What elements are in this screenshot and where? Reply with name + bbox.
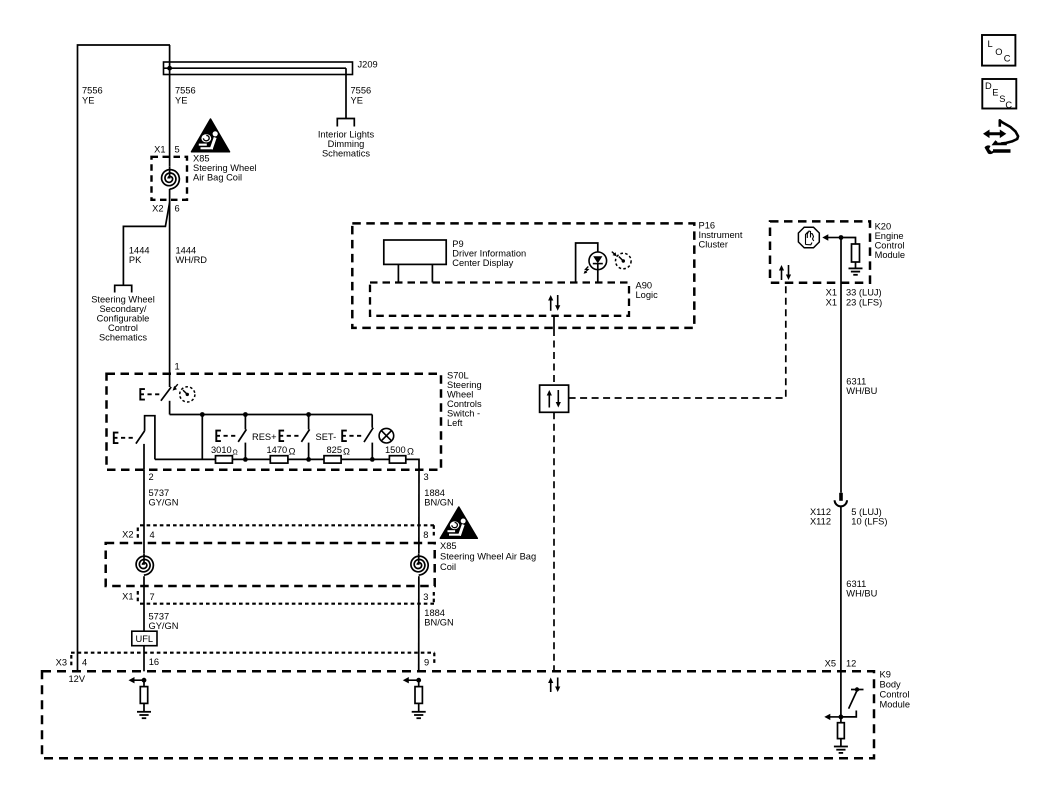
- svg-text:Module: Module: [875, 250, 906, 260]
- svg-text:X1: X1: [122, 592, 133, 602]
- svg-text:4: 4: [82, 658, 87, 668]
- svg-text:Control: Control: [875, 241, 905, 251]
- svg-text:L: L: [988, 39, 993, 49]
- svg-text:X85: X85: [440, 541, 457, 551]
- off-page connector Steering Wheel Secondary: [115, 285, 132, 292]
- svg-text:5737: 5737: [149, 488, 170, 498]
- svg-text:5 (LUJ): 5 (LUJ): [851, 507, 881, 517]
- K9 Body Control Module box: [42, 671, 874, 758]
- svg-text:X2: X2: [122, 530, 133, 540]
- switch S2 (volume/left bottom): [136, 431, 145, 444]
- svg-text:3010: 3010: [211, 445, 232, 455]
- svg-text:7556: 7556: [175, 86, 196, 96]
- junction dot BCM right: [839, 715, 844, 720]
- svg-text:GY/GN: GY/GN: [149, 498, 179, 508]
- svg-text:4: 4: [150, 530, 155, 540]
- svg-text:BN/GN: BN/GN: [424, 618, 453, 628]
- svg-text:X85: X85: [193, 154, 210, 164]
- svg-text:Body: Body: [880, 680, 902, 690]
- wire 7556 YE left branch: [78, 45, 171, 671]
- svg-text:UFL: UFL: [136, 634, 154, 644]
- K20 pull-up resistor: [841, 238, 856, 245]
- junction dot on J209: [167, 66, 172, 71]
- gauge icon (cruise) in cluster: [616, 253, 632, 269]
- svg-text:WH/RD: WH/RD: [176, 255, 208, 265]
- serial data stub below A90: [553, 316, 555, 329]
- svg-text:Steering Wheel Air Bag: Steering Wheel Air Bag: [440, 552, 536, 562]
- BCM pin16 pull resistor: [143, 680, 145, 686]
- svg-text:Steering: Steering: [447, 380, 482, 390]
- svg-text:RES+: RES+: [252, 432, 277, 442]
- svg-text:1: 1: [175, 362, 180, 372]
- svg-text:6311: 6311: [846, 377, 866, 387]
- svg-text:K20: K20: [875, 222, 892, 232]
- svg-text:X112: X112: [810, 507, 831, 517]
- svg-text:Cluster: Cluster: [699, 240, 728, 250]
- UFL box: [132, 631, 157, 646]
- svg-text:1444: 1444: [129, 245, 150, 255]
- switch S4 (SET- branch): [308, 415, 310, 430]
- warning triangle air bag (top): [192, 119, 230, 152]
- svg-text:P16: P16: [699, 221, 716, 231]
- svg-text:X1: X1: [154, 145, 165, 155]
- svg-text:7: 7: [150, 592, 155, 602]
- serial data dashed gateway to BCM: [553, 412, 555, 671]
- LED indicator (cruise lamp): [576, 243, 598, 283]
- P16 Instrument Cluster box: [352, 223, 694, 328]
- resistor 1470 ohm: [270, 456, 288, 463]
- svg-text:Engine: Engine: [875, 231, 904, 241]
- internal bus horizontal: [170, 414, 373, 416]
- wire 7556 YE center vertical (to coil X85): [169, 45, 171, 176]
- in-line connector X112: [839, 493, 843, 501]
- svg-text:Ω: Ω: [233, 450, 238, 457]
- svg-text:2: 2: [149, 472, 154, 482]
- adjust/repair icon: [983, 120, 1018, 154]
- svg-text:Instrument: Instrument: [699, 230, 743, 240]
- A90 Logic box: [370, 283, 629, 316]
- svg-text:1500: 1500: [385, 445, 406, 455]
- hand icon (driver input): [798, 227, 819, 248]
- svg-text:7556: 7556: [351, 86, 372, 96]
- svg-text:12V: 12V: [69, 674, 86, 684]
- connector X1 row (in-line, dashed): [140, 603, 434, 605]
- svg-text:C: C: [1005, 100, 1012, 110]
- svg-text:Secondary/: Secondary/: [99, 304, 146, 314]
- wire 1444 PK branch: [123, 203, 169, 286]
- svg-text:WH/BU: WH/BU: [846, 589, 877, 599]
- svg-text:9: 9: [424, 657, 429, 667]
- wire 1444 WH/RD from coil to S70L pin 1: [169, 189, 171, 374]
- svg-text:1884: 1884: [424, 608, 445, 618]
- serial data gateway box: [540, 385, 569, 412]
- DESC nav box: [982, 79, 1016, 109]
- svg-text:3: 3: [423, 592, 428, 602]
- ground (BCM pin9): [412, 711, 426, 713]
- svg-text:7556: 7556: [82, 86, 103, 96]
- off-page connector Interior Lights: [337, 119, 354, 127]
- serial data arrows in A90: [550, 299, 552, 311]
- svg-text:Air Bag Coil: Air Bag Coil: [193, 173, 242, 183]
- left bracket wire (switch S2 to resistor row): [145, 416, 155, 460]
- svg-text:1884: 1884: [424, 488, 445, 498]
- svg-text:1444: 1444: [176, 245, 197, 255]
- svg-text:A90: A90: [636, 281, 653, 291]
- junction dots on bus: [200, 412, 205, 417]
- svg-text:X5: X5: [825, 659, 836, 669]
- svg-text:Configurable: Configurable: [97, 314, 150, 324]
- svg-text:YE: YE: [175, 96, 187, 106]
- switch S5 (rightmost branch): [371, 415, 373, 428]
- svg-text:Driver Information: Driver Information: [452, 249, 526, 259]
- svg-text:K9: K9: [880, 670, 891, 680]
- svg-text:Coil: Coil: [440, 562, 456, 572]
- switch S1 lower stub to bus: [169, 401, 171, 415]
- BCM pin9 pull resistor: [418, 680, 420, 686]
- svg-text:X3: X3: [56, 658, 67, 668]
- ground (BCM right): [834, 746, 848, 748]
- wire pin 2 lower stub: [143, 444, 145, 470]
- S70L Steering Wheel Controls Switch box: [107, 374, 442, 470]
- wire 5737 GY/GN: [143, 470, 145, 632]
- svg-text:3: 3: [424, 472, 429, 482]
- svg-text:C: C: [1004, 54, 1011, 64]
- wire 7556 YE right branch to off-page: [345, 68, 347, 118]
- svg-text:10 (LFS): 10 (LFS): [851, 516, 887, 526]
- svg-text:Dimming: Dimming: [328, 139, 365, 149]
- BCM internal switch (right): [851, 689, 864, 691]
- wire 6311 from K20: [840, 238, 842, 493]
- svg-text:O: O: [995, 47, 1002, 57]
- serial data dashed to gateway box: [553, 329, 555, 385]
- serial data arrows in BCM: [550, 682, 552, 693]
- clockspring coil symbol: [158, 167, 182, 191]
- svg-text:1470: 1470: [267, 445, 288, 455]
- svg-text:X1: X1: [826, 298, 837, 308]
- svg-text:YE: YE: [82, 96, 94, 106]
- switch S3 (RES+ branch): [244, 415, 246, 430]
- svg-text:X1: X1: [826, 288, 837, 298]
- svg-text:Ω: Ω: [343, 447, 350, 457]
- clockspring coil symbol right: [407, 553, 430, 576]
- svg-text:Controls: Controls: [447, 399, 482, 409]
- actuator arrow on S1: [174, 384, 178, 388]
- svg-text:BN/GN: BN/GN: [424, 498, 453, 508]
- svg-text:X2: X2: [152, 204, 163, 214]
- svg-text:SET-: SET-: [316, 432, 337, 442]
- svg-text:D: D: [985, 81, 992, 91]
- splice J209 bus bar: [164, 62, 353, 75]
- ground (K20): [849, 267, 863, 269]
- svg-text:P9: P9: [452, 239, 463, 249]
- air bag coil box (lower X85): [106, 543, 435, 586]
- lamp symbol (illumination): [379, 428, 394, 443]
- svg-text:Ω: Ω: [289, 447, 296, 457]
- clockspring coil symbol left: [132, 553, 155, 576]
- svg-text:Interior Lights: Interior Lights: [318, 130, 375, 140]
- svg-text:J209: J209: [358, 60, 378, 70]
- arrow from serial wire to hand: [826, 237, 841, 239]
- BCM right resistor: [840, 717, 842, 723]
- svg-text:Wheel: Wheel: [447, 390, 473, 400]
- BCM pin9 internal: junction + arrow: [416, 678, 421, 683]
- svg-text:5: 5: [175, 145, 180, 155]
- svg-text:WH/BU: WH/BU: [846, 386, 877, 396]
- svg-text:12: 12: [846, 659, 856, 669]
- svg-text:Left: Left: [447, 418, 463, 428]
- wire UFL to X3: [143, 646, 145, 672]
- gauge icon (cruise) in S70L: [180, 387, 195, 402]
- svg-text:33 (LUJ): 33 (LUJ): [846, 288, 882, 298]
- ground (BCM pin16): [137, 711, 151, 713]
- actuator arrow near gauge: [612, 252, 615, 255]
- svg-text:X112: X112: [810, 516, 831, 526]
- svg-text:YE: YE: [351, 96, 363, 106]
- air bag coil X85 dashed box: [152, 157, 188, 200]
- svg-text:23 (LFS): 23 (LFS): [846, 298, 882, 308]
- resistor 825 ohm: [324, 456, 341, 463]
- svg-text:Control: Control: [880, 690, 910, 700]
- junction dot K20: [839, 235, 844, 240]
- junction dots on resistor row: [243, 457, 248, 462]
- resistor 3010 ohm: [216, 456, 233, 463]
- resistor row wire: [155, 458, 216, 460]
- serial data dashed gateway to K20: [569, 283, 786, 398]
- svg-text:Steering Wheel: Steering Wheel: [193, 163, 257, 173]
- svg-text:6: 6: [175, 204, 180, 214]
- warning triangle air bag (lower): [440, 507, 477, 538]
- ladder left leg wire: [201, 415, 203, 460]
- switch S1 cruise on/off: [169, 374, 171, 387]
- svg-text:Switch -: Switch -: [447, 409, 480, 419]
- svg-text:PK: PK: [129, 255, 142, 265]
- svg-text:825: 825: [327, 445, 343, 455]
- svg-text:GY/GN: GY/GN: [149, 621, 179, 631]
- LOC nav box: [982, 35, 1015, 66]
- svg-text:Logic: Logic: [636, 290, 659, 300]
- BCM pin16 internal: junction + arrow: [142, 678, 147, 683]
- svg-text:Center Display: Center Display: [452, 258, 513, 268]
- svg-text:E: E: [992, 88, 998, 98]
- svg-text:Control: Control: [108, 323, 138, 333]
- svg-text:Schematics: Schematics: [99, 333, 147, 343]
- connector X3 row (in-line, dashed): [71, 652, 435, 654]
- svg-text:Module: Module: [880, 700, 911, 710]
- svg-text:Steering Wheel: Steering Wheel: [91, 295, 155, 305]
- svg-text:6311: 6311: [846, 579, 866, 589]
- K20 Engine Control Module box: [770, 221, 870, 282]
- svg-text:Schematics: Schematics: [322, 149, 370, 159]
- svg-text:16: 16: [149, 657, 159, 667]
- LED flash arrow: [585, 267, 588, 273]
- wire 6311 lower: [840, 507, 842, 717]
- connector X2 row (in-line, dashed): [140, 524, 434, 526]
- svg-text:S70L: S70L: [447, 371, 469, 381]
- serial data arrows in K20: [781, 269, 783, 280]
- wire 1884 BN/GN: [418, 470, 420, 672]
- resistor 1500 ohm: [389, 456, 405, 463]
- svg-text:5737: 5737: [149, 612, 170, 622]
- svg-text:8: 8: [423, 530, 428, 540]
- svg-text:Ω: Ω: [407, 447, 414, 457]
- P9 Driver Information Center Display: [384, 240, 446, 264]
